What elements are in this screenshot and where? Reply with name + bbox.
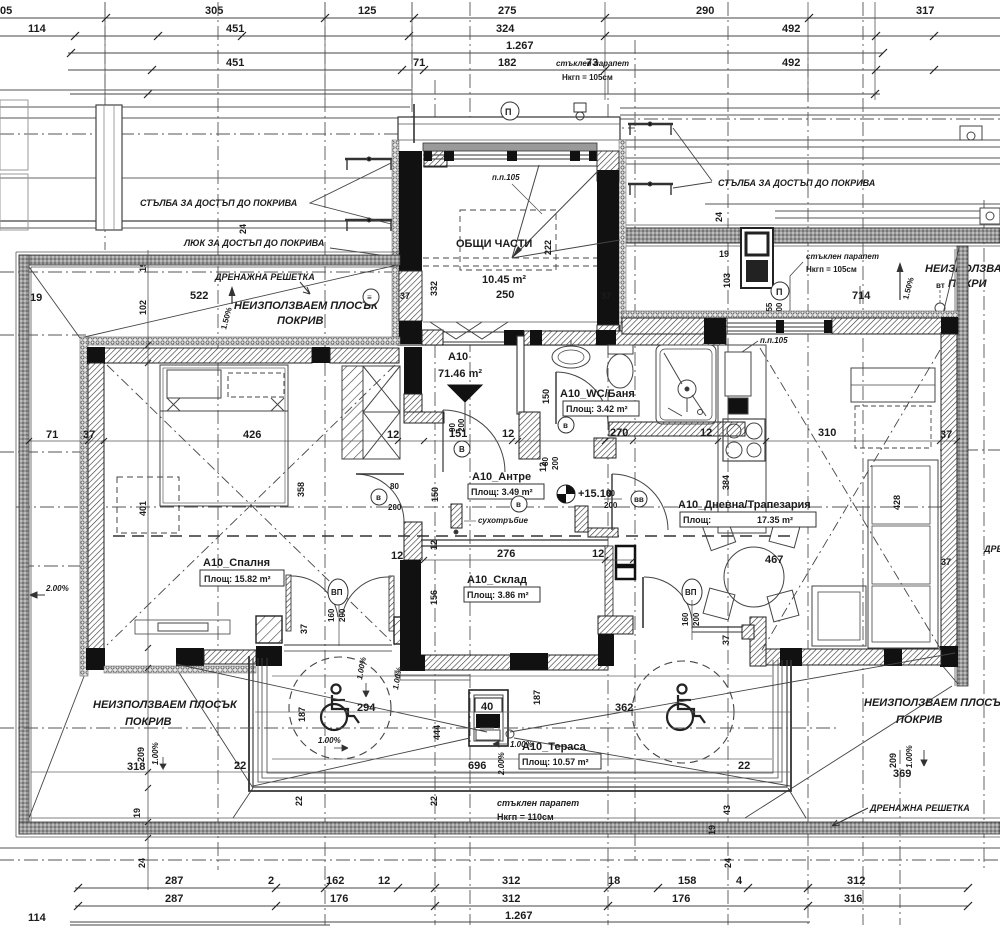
svg-text:37: 37 (400, 291, 410, 301)
left wall line low 1 (0, 220, 398, 222)
leader lines left ladders (310, 163, 391, 224)
stair bottom landing line (423, 321, 597, 323)
bed pillow right dashed (228, 373, 284, 397)
mullion 3 (570, 151, 580, 161)
tick line 714 (859, 286, 861, 304)
mullion 1 (444, 151, 454, 161)
bedroom top wall black corner (87, 347, 105, 364)
pier below WC (594, 438, 616, 458)
axis horizontal y566 left (20, 565, 88, 567)
right parapet line 4 (620, 146, 1000, 148)
rowA labels (165, 875, 865, 887)
svg-text:В: В (459, 445, 465, 454)
corridor-living door arc (612, 474, 668, 530)
svg-text:426: 426 (243, 429, 261, 441)
svg-text:СТЪЛБА ЗА ДОСТЪП ДО ПОКРИВА: СТЪЛБА ЗА ДОСТЪП ДО ПОКРИВА (718, 178, 875, 188)
WC sink (552, 346, 590, 368)
axis vertical x808 (807, 40, 809, 925)
wardrobe X box2 (363, 412, 400, 459)
svg-text:ПОКРИВ: ПОКРИВ (125, 716, 171, 728)
bedroom door arc (356, 474, 404, 522)
thin line below bottom band (0, 847, 1000, 849)
svg-text:200: 200 (604, 501, 618, 510)
stair diagonal 3 (512, 165, 539, 258)
living top wall black1 pier (704, 318, 726, 344)
svg-text:2.00%: 2.00% (497, 752, 506, 776)
circle B bedroom door (371, 489, 387, 505)
chair SE (767, 590, 799, 622)
svg-text:1.00%: 1.00% (318, 736, 341, 745)
svg-text:1.00%: 1.00% (151, 742, 160, 765)
svg-text:270: 270 (610, 427, 628, 439)
stair ins strip left (392, 140, 399, 344)
small circle marker left stair (363, 289, 379, 305)
door leaf left (286, 575, 291, 631)
dim chain line x148 (147, 250, 149, 890)
svg-text:НЕИЗПОЛЗВАЕМ ПЛОСЪК: НЕИЗПОЛЗВАЕМ ПЛОСЪК (93, 699, 238, 711)
svg-text:275: 275 (498, 5, 516, 17)
wheelchair symbol 1 (321, 685, 359, 731)
living bottom wall black1 (780, 648, 802, 666)
row ticks (67, 14, 938, 98)
svg-text:Площ: 3.49 m²: Площ: 3.49 m² (471, 487, 533, 497)
entrance door leaf (442, 410, 444, 472)
axis horizontal y507 (16, 506, 950, 508)
svg-text:ПОКРИВ: ПОКРИВ (896, 714, 942, 726)
axis vertical x435 (434, 80, 436, 925)
rowB labels (165, 893, 862, 905)
circle v corridor (511, 496, 527, 512)
svg-text:Площ: 15.82 m²: Площ: 15.82 m² (204, 574, 271, 584)
terrace nested border line1 (253, 658, 787, 787)
glass parapet note (556, 59, 629, 82)
svg-text:А10: А10 (448, 351, 468, 363)
svg-text:Площ: 3.42 m²: Площ: 3.42 m² (566, 404, 628, 414)
roof band left vertical (19, 255, 29, 834)
rowA ticks (74, 884, 972, 892)
leader from hatch text (330, 248, 415, 260)
leader pp105 (742, 341, 758, 352)
bedroom SE pier (394, 617, 420, 644)
bedroom door leaf (356, 473, 404, 475)
stair diagonal 2 (512, 240, 620, 258)
axis horizontal y450 right (940, 449, 1000, 451)
svg-text:287: 287 (165, 893, 183, 905)
shower cabin (656, 345, 716, 424)
door leaf right (389, 576, 394, 631)
svg-text:в: в (376, 493, 381, 502)
svg-text:310: 310 (818, 427, 836, 439)
shower diagonal (664, 353, 682, 384)
circle B wc door (558, 417, 574, 433)
bedroom terrace door threshold (284, 644, 392, 646)
svg-text:Нкгп = 105см: Нкгп = 105см (562, 73, 613, 82)
svg-text:467: 467 (765, 554, 783, 566)
terrace slope diagonal 3 (253, 738, 470, 786)
svg-text:90: 90 (448, 423, 457, 432)
thin outline bottom outer (16, 836, 1000, 838)
living bottom wall hatch (766, 649, 941, 665)
closet dashed rect (855, 406, 931, 448)
WC top wall black1 (530, 330, 542, 345)
svg-text:10.45 m²: 10.45 m² (482, 274, 526, 286)
entrance threshold (443, 331, 504, 333)
circle VP bedroom (328, 579, 348, 605)
svg-text:71.46 m²: 71.46 m² (438, 368, 482, 380)
svg-text:ОБЩИ ЧАСТИ: ОБЩИ ЧАСТИ (456, 238, 532, 250)
living diag dash2 (762, 350, 940, 650)
svg-text:2.00%: 2.00% (45, 584, 69, 593)
living diag dash1 (760, 348, 940, 648)
bedside hatch closet (342, 366, 363, 459)
WC toilet (608, 345, 633, 354)
antre left wall hatch (404, 394, 422, 418)
roof diagonal bottom-left (176, 668, 253, 788)
living bottom wall black2 (884, 649, 902, 666)
svg-text:≡: ≡ (367, 293, 372, 302)
svg-text:1.267: 1.267 (506, 40, 534, 52)
dim labels row1 (0, 5, 934, 17)
axis vertical x984 (983, 200, 985, 870)
area box wc (563, 401, 639, 416)
svg-text:ЛЮК ЗА ДОСТЪП ДО ПОКРИВА: ЛЮК ЗА ДОСТЪП ДО ПОКРИВА (183, 238, 324, 248)
chimney left column (96, 105, 122, 230)
svg-text:324: 324 (496, 23, 515, 35)
svg-text:А10_Антре: А10_Антре (472, 471, 531, 483)
svg-text:401: 401 (138, 501, 148, 516)
long roof diagonal top (80, 265, 397, 338)
area box bedroom (200, 570, 284, 586)
svg-text:150: 150 (541, 389, 551, 404)
svg-text:156: 156 (429, 590, 439, 605)
stair window pier hatch (424, 151, 447, 167)
svg-text:287: 287 (165, 875, 183, 887)
svg-text:492: 492 (782, 57, 800, 69)
duct box 1 (616, 546, 635, 565)
svg-text:19: 19 (707, 825, 717, 835)
WC door arc (556, 372, 608, 424)
svg-text:п.п.105: п.п.105 (492, 173, 520, 182)
shower handle (668, 398, 687, 416)
svg-text:22: 22 (234, 760, 246, 772)
axis circle P right (771, 282, 789, 300)
sofa seat2 (872, 526, 930, 584)
leader lines right ladders (673, 128, 712, 188)
svg-text:стъклен парапет: стъклен парапет (556, 59, 629, 68)
kitchen counter (718, 345, 766, 533)
window mullion a (776, 320, 784, 333)
svg-text:114: 114 (28, 912, 47, 924)
sofa seat3 (872, 586, 930, 642)
svg-text:12: 12 (391, 550, 403, 562)
drain box inner (474, 695, 503, 741)
WC top wall hatch (524, 331, 726, 345)
arrow 2.00% (30, 592, 45, 598)
insulation below bedroom wall (104, 666, 256, 673)
axis vertical x218 (217, 2, 219, 870)
sofa back (868, 460, 938, 648)
right mid line3 (775, 217, 1000, 219)
terrace slope diagonal 2 (510, 653, 955, 732)
axis vertical x105 (104, 2, 106, 250)
top band boundary verticals (105, 2, 875, 100)
terrace dim line y772 (31, 771, 790, 773)
bedroom diagonal axis 1 (107, 365, 395, 645)
svg-text:200: 200 (388, 503, 402, 512)
circle B antre (454, 441, 470, 457)
entrance door arc (443, 410, 505, 472)
area box terrace (519, 754, 601, 769)
svg-text:22: 22 (294, 796, 304, 806)
armchair (812, 586, 866, 646)
svg-text:1.00%: 1.00% (510, 740, 533, 749)
terrace slope diagonal 4 (514, 738, 790, 786)
svg-text:37: 37 (299, 624, 309, 634)
stair bottom wall left piece (422, 330, 443, 345)
axis vertical x728 (727, 2, 729, 925)
dimension line row3 (68, 52, 883, 54)
svg-text:СТЪЛБА ЗА ДОСТЪП ДО ПОКРИВА: СТЪЛБА ЗА ДОСТЪП ДО ПОКРИВА (140, 198, 297, 208)
kitchen sink black (725, 352, 751, 396)
svg-text:37: 37 (601, 291, 611, 301)
drain label 40 (475, 698, 502, 712)
terrace corner miter left (233, 788, 253, 818)
left mid line (0, 177, 398, 179)
svg-text:А10_Спалня: А10_Спалня (203, 557, 270, 569)
living bottom step wall (750, 617, 766, 666)
stair right wall bottom (597, 325, 619, 345)
circle vv living door (631, 491, 647, 507)
svg-text:162: 162 (326, 875, 344, 887)
terrace line y759 (272, 758, 772, 760)
svg-text:19: 19 (719, 249, 729, 259)
stair window lines (423, 154, 597, 156)
svg-text:П: П (776, 287, 782, 297)
svg-text:125: 125 (358, 5, 376, 17)
thin inner left line (30, 267, 32, 822)
svg-text:176: 176 (330, 893, 348, 905)
svg-text:12: 12 (387, 429, 399, 441)
chair NE (769, 516, 801, 548)
terrace nested border line3 (262, 658, 778, 778)
antre wall jog (404, 412, 444, 423)
stair interior dashed mid (423, 257, 597, 259)
svg-text:17.35 m²: 17.35 m² (757, 515, 793, 525)
axis horizontal y272 (0, 271, 400, 273)
dry riser symbol (451, 504, 462, 528)
svg-text:276: 276 (497, 548, 515, 560)
axis vertical x635 (634, 40, 636, 860)
left low rect outline 2 (0, 174, 28, 230)
antre WC wall step (519, 412, 540, 459)
axis circle P stair top (501, 102, 519, 120)
bed pillow left (167, 370, 221, 398)
drain black band (476, 714, 500, 728)
pier corridor (575, 506, 588, 532)
svg-text:200: 200 (551, 456, 560, 470)
terrace slope diagonal 1 (176, 664, 487, 732)
svg-text:209: 209 (136, 747, 146, 762)
miter diagonal TR (941, 248, 959, 322)
terrace line y676 (272, 675, 772, 677)
wardrobe X box1 (363, 366, 400, 412)
svg-text:200: 200 (692, 612, 701, 626)
leader line pp (512, 184, 542, 214)
svg-text:696: 696 (468, 760, 486, 772)
right parapet line 5 (620, 157, 1000, 159)
stair right wall black (597, 170, 619, 325)
area box sklad (464, 587, 540, 602)
svg-text:222: 222 (543, 240, 553, 255)
svg-text:428: 428 (892, 495, 902, 510)
WC door leaf (555, 372, 557, 424)
svg-text:19: 19 (132, 808, 142, 818)
svg-text:вв: вв (634, 495, 644, 504)
bottom dim line rowC (70, 921, 810, 923)
svg-text:12: 12 (700, 427, 712, 439)
stair left wall hatch (399, 271, 422, 321)
svg-text:80: 80 (606, 489, 615, 498)
chair NW (702, 517, 735, 550)
stair left wall black (399, 151, 422, 271)
axis vertical x325 (324, 2, 326, 925)
stair arrow head (512, 246, 522, 258)
svg-text:24: 24 (723, 858, 733, 868)
arrow down t1 (363, 683, 369, 697)
corridor wall bit (588, 528, 618, 537)
bedroom top wall hatch (104, 348, 312, 363)
svg-text:316: 316 (844, 893, 862, 905)
drain lower box (476, 730, 500, 740)
svg-text:451: 451 (226, 23, 244, 35)
svg-text:522: 522 (190, 290, 208, 302)
bedroom left wall black bottom (86, 648, 105, 670)
svg-text:19: 19 (30, 292, 42, 304)
svg-text:22: 22 (738, 760, 750, 772)
svg-text:358: 358 (296, 482, 306, 497)
dim labels row2 (28, 23, 800, 35)
area box antre (468, 484, 544, 499)
svg-text:Площ:: Площ: (683, 515, 711, 525)
axis horizontal y134 (0, 133, 412, 135)
bottom 114 line (70, 924, 330, 926)
svg-text:312: 312 (502, 875, 520, 887)
miter diagonal TL (29, 267, 80, 338)
svg-text:158: 158 (678, 875, 696, 887)
sklad lightwell nested (395, 670, 470, 680)
ladder R2 (628, 182, 673, 195)
svg-text:294: 294 (357, 702, 376, 714)
stair interior dashed rect (460, 210, 556, 270)
svg-text:187: 187 (297, 707, 307, 722)
thin inner bottom line (31, 817, 1000, 819)
svg-text:150: 150 (430, 487, 440, 502)
small box symbol top (574, 103, 586, 112)
thin inner top line (31, 266, 398, 268)
sklad bottom wall black1 (400, 655, 425, 671)
stair window band top (423, 143, 597, 151)
sofa seat1 (872, 466, 930, 524)
living terrace threshold (692, 626, 742, 628)
bold dashed line y536 (113, 535, 790, 537)
svg-text:312: 312 (847, 875, 865, 887)
corridor-living door leaf (611, 474, 613, 530)
roof band right vertical (957, 246, 968, 686)
bed blanket line (160, 410, 288, 412)
svg-text:451: 451 (226, 57, 244, 69)
thin outline top outer (16, 251, 400, 253)
tiny post symbol above stair (491, 139, 498, 144)
living top wall hatch (622, 318, 958, 334)
drain box outer (469, 690, 508, 746)
svg-text:12: 12 (592, 548, 604, 560)
terrace nested border line2 (258, 658, 782, 782)
svg-text:НЕИЗПОЛЗВАЕМ ПЛОСЪК: НЕИЗПОЛЗВАЕМ ПЛОСЪК (234, 300, 379, 312)
svg-text:362: 362 (615, 702, 633, 714)
bedroom right wall lower hatch (404, 522, 422, 560)
svg-text:12: 12 (538, 462, 548, 472)
svg-text:вт: вт (936, 281, 945, 290)
roof band bottom horizontal (19, 822, 1000, 834)
svg-text:102: 102 (138, 300, 148, 315)
corridor dim line y560 (424, 559, 632, 561)
dim label 1.267 (506, 40, 534, 52)
arrow right t2 (334, 745, 348, 751)
bedroom bottom wall black L (176, 648, 204, 667)
sklad bottom wall black2 (510, 653, 548, 670)
bottom dim line rowA (75, 887, 968, 889)
living right wall black bottom (940, 646, 958, 667)
svg-text:ПОКРИВ: ПОКРИВ (277, 315, 323, 327)
dimension line row2 (0, 35, 1000, 37)
wheelchair zone circle 2 (632, 661, 734, 763)
svg-text:05: 05 (0, 5, 12, 17)
svg-text:492: 492 (782, 23, 800, 35)
bedroom dresser (135, 620, 230, 634)
band top thin line (620, 224, 1000, 226)
svg-text:ВП: ВП (331, 588, 343, 597)
svg-text:176: 176 (672, 893, 690, 905)
ladder L1 (345, 157, 393, 170)
stair diagonal 1 (512, 171, 598, 258)
svg-text:160: 160 (327, 608, 336, 622)
svg-text:2: 2 (268, 875, 274, 887)
antre WC wall thin (517, 336, 524, 414)
area box living (680, 512, 816, 527)
thin outline left outer (15, 252, 17, 837)
svg-text:Нкгп = 110см: Нкгп = 110см (497, 812, 554, 822)
svg-text:стъклен парапет: стъклен парапет (497, 798, 579, 808)
stair bottom wall black piece (504, 330, 524, 345)
svg-text:ДРЕНАЖНА РЕШЕТКА: ДРЕНАЖНА РЕШЕТКА (214, 272, 315, 282)
chimney right box (741, 228, 773, 288)
right parapet line 1 (620, 107, 1000, 109)
sklad bottom wall hatch (421, 655, 608, 670)
living terrace wall right bit (742, 625, 754, 639)
svg-text:24: 24 (137, 858, 147, 868)
svg-text:114: 114 (28, 23, 47, 35)
chair SW (703, 588, 735, 620)
right mid line (705, 203, 1000, 205)
svg-text:18: 18 (608, 875, 620, 887)
terrace corner miter right (788, 788, 806, 818)
arrow left t4 (493, 741, 507, 747)
left wall line low 2 (0, 227, 398, 229)
dimension line row1 (0, 17, 1000, 19)
svg-text:4: 4 (736, 875, 743, 887)
bed fold corners (167, 398, 284, 411)
dining table (724, 547, 784, 607)
